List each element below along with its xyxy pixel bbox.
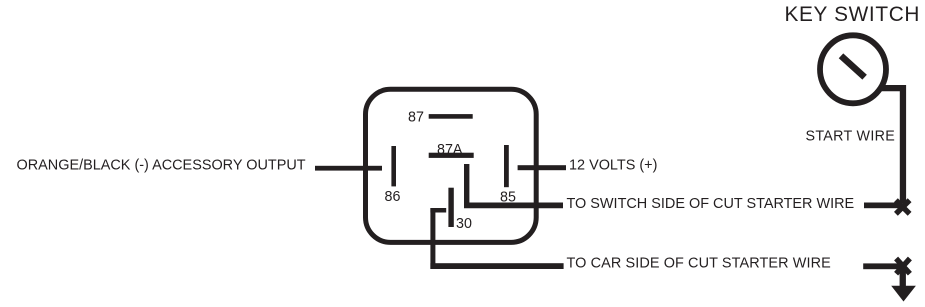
svg-text:KEY SWITCH: KEY SWITCH [785, 3, 921, 26]
pin 85 blade [504, 145, 509, 187]
cut point X on car side [896, 259, 910, 274]
svg-text:TO SWITCH SIDE OF CUT STARTER: TO SWITCH SIDE OF CUT STARTER WIRE [567, 196, 855, 212]
svg-text:ORANGE/BLACK (-) ACCESSORY OUT: ORANGE/BLACK (-) ACCESSORY OUTPUT [17, 158, 306, 174]
wire: pin 87A down and right to switch side [464, 164, 563, 208]
wire: accessory output to pin 86 [315, 166, 382, 171]
wire: car side horizontal run [430, 263, 563, 269]
arrow to starter motor [900, 270, 906, 286]
relay body U1 [366, 89, 537, 242]
svg-text:87A: 87A [437, 142, 463, 158]
svg-text:86: 86 [385, 189, 401, 205]
wire: pin 85 to 12 volts [518, 165, 566, 170]
svg-text:TO CAR SIDE OF CUT STARTER WIR: TO CAR SIDE OF CUT STARTER WIRE [567, 256, 832, 272]
svg-text:87: 87 [408, 109, 424, 125]
wire: switch side segment to cut point [864, 203, 902, 209]
pin 87 contact bar [429, 114, 473, 119]
key switch actuator line [841, 56, 865, 77]
pin 86 blade [391, 146, 396, 186]
svg-text:START WIRE: START WIRE [806, 129, 896, 145]
svg-text:12 VOLTS (+): 12 VOLTS (+) [569, 158, 657, 174]
svg-text:30: 30 [456, 216, 472, 232]
wire: car side segment to cut point [863, 263, 902, 269]
wire: pin 30 stub [430, 208, 446, 213]
wire: key switch to start wire junction [880, 85, 906, 203]
cut point X on switch side [896, 200, 910, 214]
key switch SW1 circle [820, 35, 886, 103]
pin 87A contact bar [429, 153, 474, 158]
pin 30 blade [448, 188, 453, 227]
wire: pin 30 vertical run [430, 208, 435, 269]
